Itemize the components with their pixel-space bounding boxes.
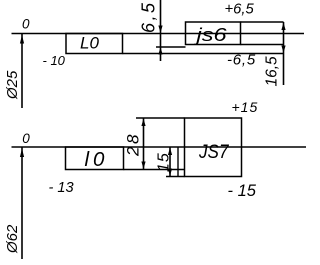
svg-text:28: 28 — [124, 132, 143, 157]
svg-text:JS7: JS7 — [198, 142, 230, 163]
L0 bottom extension line — [123, 53, 284, 55]
svg-text:l0: l0 — [85, 148, 109, 171]
svg-text:- 13: - 13 — [49, 180, 74, 196]
Smax dimension line (28) — [143, 118, 145, 170]
Nmax dimension line (16,5) — [283, 22, 285, 85]
arrowhead up to zero line — [168, 148, 172, 156]
tolerance field L0 box — [66, 34, 123, 54]
zero line (bottom diagram) — [12, 146, 307, 148]
svg-text:Ø25: Ø25 — [4, 70, 21, 100]
diameter dimension line Ø25 — [21, 34, 23, 109]
zero line (top diagram) — [12, 33, 305, 35]
svg-text:6,5: 6,5 — [139, 0, 159, 33]
js6 bottom extension line (right) — [241, 44, 284, 46]
JS7 bottom extension line (left) — [166, 176, 185, 178]
JS7 top extension line (left) — [136, 117, 185, 119]
arrowhead down to -15 line — [168, 169, 172, 177]
arrowhead up at zero line (top Ø dim) — [20, 35, 24, 44]
svg-text:+6,5: +6,5 — [225, 1, 255, 17]
svg-text:- 15: - 15 — [228, 182, 257, 200]
js6 bottom extension line (left) — [156, 46, 186, 48]
Smax dimension line (6,5) — [160, 0, 162, 61]
arrowhead up to -6,5 line — [158, 47, 162, 55]
svg-text:-6,5: -6,5 — [227, 51, 256, 68]
js6 top extension line — [241, 21, 284, 23]
svg-text:Ø62: Ø62 — [4, 224, 21, 254]
arrowhead down to -10 line — [281, 46, 285, 54]
svg-text:js6: js6 — [193, 24, 228, 45]
svg-text:15: 15 — [156, 152, 173, 172]
svg-text:+15: +15 — [232, 99, 259, 115]
l0 bottom extension line — [124, 169, 185, 171]
arrowhead up to +15 line — [141, 119, 145, 127]
tolerance field js6 box — [186, 22, 241, 45]
svg-text:L0: L0 — [80, 33, 99, 52]
svg-text:16,5: 16,5 — [264, 56, 281, 87]
arrowhead down to zero line — [158, 26, 162, 34]
arrowhead up to +6,5 line — [281, 23, 285, 31]
short vertical connector at x=178 — [177, 147, 179, 177]
arrowhead down to -13 line — [141, 162, 145, 170]
tolerance field JS7 box — [185, 118, 242, 177]
svg-text:0: 0 — [22, 16, 30, 31]
svg-text:0: 0 — [22, 131, 30, 146]
tolerance field l0 box — [66, 147, 124, 170]
Nmax dimension line (15) — [169, 147, 171, 177]
diameter dimension line Ø62 — [21, 147, 23, 259]
svg-text:- 10: - 10 — [43, 53, 66, 68]
arrowhead up at zero line (bottom Ø dim) — [20, 149, 24, 158]
